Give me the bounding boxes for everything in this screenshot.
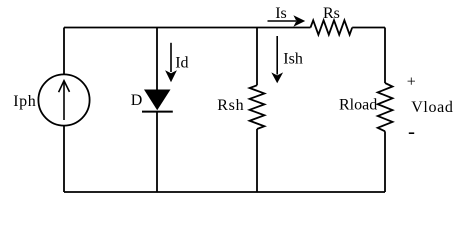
svg-text:Iph: Iph — [13, 93, 36, 110]
wire right branch lower — [384, 131, 386, 192]
svg-text:Id: Id — [175, 54, 188, 71]
svg-text:Rload: Rload — [339, 97, 377, 114]
wire Rsh branch upper — [256, 28, 258, 86]
wire right branch upper — [384, 28, 386, 84]
label minus — [409, 132, 414, 134]
arrow Iph (inside source, pointing up) — [59, 81, 70, 120]
current source Iph — [38, 74, 89, 125]
svg-text:+: + — [407, 74, 416, 91]
resistor Rs — [311, 20, 353, 34]
wire top rail left segment — [64, 27, 311, 29]
svg-text:Vload: Vload — [411, 99, 453, 116]
wire bottom rail — [64, 191, 385, 193]
wire top rail right segment — [352, 27, 385, 29]
wire diode branch lower — [156, 112, 158, 192]
wire Rsh branch lower — [256, 129, 258, 192]
arrow Id (pointing down) — [165, 43, 177, 83]
wire left branch upper — [63, 28, 65, 75]
diode D — [142, 90, 173, 112]
wire left branch lower — [63, 126, 65, 192]
wire diode branch upper — [156, 28, 158, 90]
svg-text:Rs: Rs — [323, 5, 340, 22]
arrow Ish (pointing down) — [271, 36, 283, 83]
resistor Rload — [378, 83, 393, 131]
svg-text:Ish: Ish — [283, 51, 303, 68]
resistor Rsh — [250, 85, 265, 129]
arrow Is (pointing right) — [268, 15, 306, 27]
svg-text:D: D — [131, 92, 143, 109]
svg-text:Rsh: Rsh — [217, 97, 244, 114]
svg-text:Is: Is — [275, 5, 287, 22]
